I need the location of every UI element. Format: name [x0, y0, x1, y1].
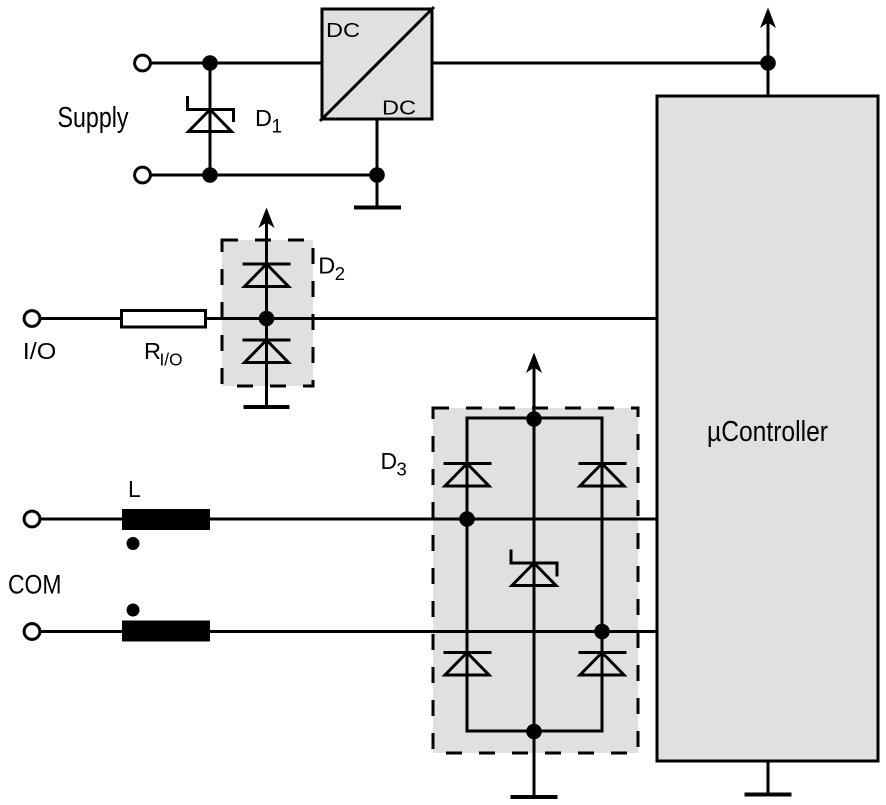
svg-text:DC: DC: [382, 97, 416, 120]
svg-text:D: D: [381, 448, 398, 474]
svg-text:L: L: [128, 476, 141, 502]
svg-text:Supply: Supply: [58, 102, 129, 134]
svg-text:I/O: I/O: [160, 350, 183, 370]
svg-text:COM: COM: [8, 570, 62, 600]
svg-text:D: D: [318, 253, 335, 279]
svg-text:I/O: I/O: [23, 338, 57, 364]
svg-text:µController: µController: [707, 416, 828, 448]
svg-text:2: 2: [335, 263, 345, 284]
svg-text:R: R: [144, 338, 161, 364]
svg-text:D: D: [255, 105, 272, 131]
svg-text:3: 3: [397, 459, 407, 480]
svg-text:1: 1: [272, 117, 283, 138]
svg-text:DC: DC: [326, 19, 360, 42]
